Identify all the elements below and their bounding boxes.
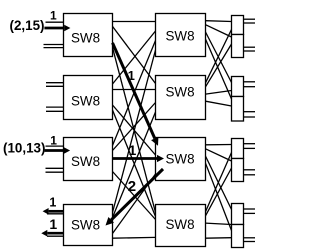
wire SW8-A1 to SW8-B1 (horizontal) bbox=[113, 21, 156, 23]
wire SW8-B4 to C4-bottom bbox=[206, 237, 232, 240]
svg-text:SW8: SW8 bbox=[71, 94, 100, 109]
wire SW8-B2 to C2-bottom bbox=[206, 101, 232, 106]
input port line SW8-A4 upper bbox=[47, 213, 64, 215]
wire SW8-B4 to C3-bottom bbox=[206, 168, 232, 216]
output port lines C4-top bbox=[244, 208, 256, 210]
wire SW8-A2 to SW8-B2 (horizontal) bbox=[113, 89, 156, 91]
bold output arrow 2 from SW8-A4 (destination 13) bbox=[47, 232, 63, 235]
input port line SW8-A2 upper-1 bbox=[46, 82, 64, 84]
wire SW8-B2 to C1-bottom bbox=[206, 44, 232, 87]
input port line SW8-A3 lower-2 bbox=[46, 171, 64, 173]
svg-text:SW8: SW8 bbox=[71, 30, 100, 45]
wire SW8-B1 to C1-bottom bbox=[206, 25, 232, 37]
svg-text:SW8: SW8 bbox=[71, 218, 100, 233]
switch C4-top (stage 3) bbox=[232, 204, 244, 225]
svg-text:SW8: SW8 bbox=[166, 28, 195, 43]
switch C4-bottom (stage 3) bbox=[232, 225, 244, 248]
wire SW8-A4 to SW8-B3 bbox=[113, 174, 156, 234]
svg-text:1: 1 bbox=[49, 216, 57, 232]
input port line SW8-A3 lower-1 bbox=[46, 167, 64, 169]
wire SW8-A4 to SW8-B1 bbox=[113, 50, 156, 213]
switch SW8-A2 (stage 1, row 2) bbox=[64, 76, 113, 120]
svg-text:SW8: SW8 bbox=[71, 154, 100, 169]
input port line SW8-A1 lower-2 bbox=[44, 47, 64, 49]
wire SW8-A1 to SW8-B4 bbox=[113, 47, 156, 212]
output port lines C3-top bbox=[244, 143, 256, 145]
svg-text:(2,15): (2,15) bbox=[10, 18, 45, 33]
output port lines C2-top bbox=[244, 81, 256, 83]
switch SW8-B3 (stage 2, row 3) bbox=[156, 138, 206, 181]
wire SW8-A3 to SW8-B2 bbox=[113, 103, 156, 151]
output port lines C2-bottom bbox=[244, 111, 256, 113]
wire SW8-A1 to SW8-B2 bbox=[113, 26, 156, 83]
svg-text:SW8: SW8 bbox=[166, 85, 195, 100]
input port line SW8-A2 upper-2 bbox=[46, 85, 64, 87]
switch SW8-A4 (stage 1, row 4) bbox=[64, 205, 113, 246]
switch C1-top (stage 3) bbox=[232, 16, 244, 35]
svg-text:1: 1 bbox=[49, 195, 56, 209]
wire SW8-B1 to C2-top bbox=[206, 32, 232, 83]
svg-text:2: 2 bbox=[128, 178, 136, 195]
svg-text:SW8: SW8 bbox=[166, 217, 195, 232]
input port line SW8-A2 lower-1 bbox=[46, 106, 64, 108]
wire SW8-A2 to SW8-B1 bbox=[113, 31, 156, 84]
wire SW8-B4 to C4-top bbox=[206, 223, 232, 224]
input port line SW8-A3 upper bbox=[46, 145, 64, 147]
input port line SW8-A4 lower bbox=[47, 235, 64, 237]
switch SW8-A3 (stage 1, row 3) bbox=[64, 138, 113, 181]
wire SW8-B3 to C3-bottom bbox=[206, 149, 232, 161]
wire SW8-B3 to C3-top bbox=[206, 144, 232, 146]
svg-text:1: 1 bbox=[50, 133, 57, 147]
wire SW8-A4 to SW8-B4 (horizontal) bbox=[113, 236, 156, 239]
switch C2-bottom (stage 3) bbox=[232, 97, 244, 122]
wire SW8-A3 to SW8-B1 bbox=[113, 41, 156, 146]
bold path segment SW8-A1 to SW8-B3, link 1 bbox=[113, 43, 155, 139]
switch C2-top (stage 3) bbox=[232, 77, 244, 97]
switch SW8-A1 (stage 1, row 1) bbox=[64, 14, 113, 57]
wire SW8-B2 to C2-top bbox=[206, 91, 232, 95]
wire SW8-B4 to C3-top bbox=[206, 153, 232, 212]
bold input arrow (2,15) into SW8-A1 bbox=[44, 27, 64, 30]
switch C3-top (stage 3) bbox=[232, 139, 244, 159]
svg-text:(10,13): (10,13) bbox=[3, 140, 45, 155]
switch C1-bottom (stage 3) bbox=[232, 35, 244, 58]
switch SW8-B4 (stage 2, row 4) bbox=[156, 205, 206, 247]
bold path segment SW8-A3 to SW8-B3, link 1 bbox=[113, 157, 158, 160]
output port lines C1-bottom bbox=[244, 46, 256, 48]
wire SW8-B1 to C2-bottom bbox=[206, 39, 232, 99]
bold output arrow 1 from SW8-A4 (destination 15) bbox=[49, 210, 64, 213]
wire SW8-B2 to C1-top bbox=[206, 30, 232, 83]
wire SW8-A2 to SW8-B3 bbox=[113, 105, 156, 155]
wire SW8-B3 to C4-bottom bbox=[206, 163, 232, 230]
output port lines C3-bottom bbox=[244, 169, 256, 171]
switch SW8-B2 (stage 2, row 2) bbox=[156, 76, 206, 120]
wire SW8-B1 to C1-top bbox=[206, 20, 232, 23]
svg-text:1: 1 bbox=[128, 68, 135, 83]
svg-text:SW8: SW8 bbox=[166, 151, 195, 166]
wire SW8-A2 to SW8-B4 bbox=[113, 110, 156, 217]
output port lines C1-top bbox=[244, 18, 256, 20]
svg-text:1: 1 bbox=[50, 9, 57, 23]
input port line SW8-A1 upper bbox=[46, 21, 64, 23]
svg-text:1: 1 bbox=[129, 142, 137, 158]
wire SW8-A4 to SW8-B2 bbox=[113, 112, 156, 218]
output port lines C4-bottom bbox=[244, 237, 256, 239]
wire SW8-A3 to SW8-B4 bbox=[113, 172, 156, 220]
input port line SW8-A1 lower-1 bbox=[44, 44, 64, 46]
switch C3-bottom (stage 3) bbox=[232, 159, 244, 182]
bold input arrow (10,13) into SW8-A3 bbox=[45, 149, 64, 152]
bold path segment SW8-B3 to SW8-A4, link 2 bbox=[111, 169, 163, 220]
wire SW8-B3 to C4-top bbox=[206, 156, 232, 209]
switch SW8-B1 (stage 2, row 1) bbox=[156, 14, 206, 57]
input port line SW8-A2 lower-2 bbox=[46, 110, 64, 112]
